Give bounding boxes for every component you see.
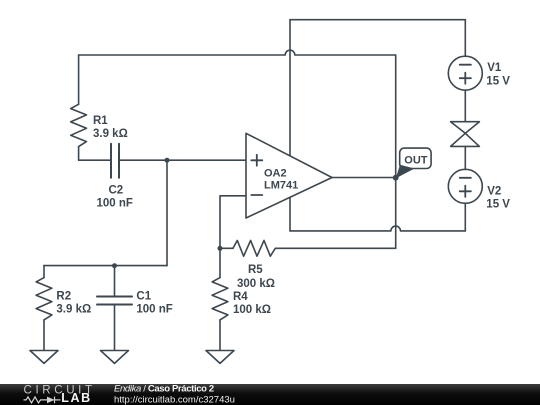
svg-text:Endika / Caso Práctico 2: Endika / Caso Práctico 2 xyxy=(114,383,214,394)
svg-text:3.9 kΩ: 3.9 kΩ xyxy=(93,128,128,140)
svg-text:http://circuitlab.com/c32743u: http://circuitlab.com/c32743u xyxy=(114,395,235,405)
svg-text:3.9 kΩ: 3.9 kΩ xyxy=(56,304,91,316)
svg-text:100 kΩ: 100 kΩ xyxy=(233,304,271,316)
svg-text:OA2: OA2 xyxy=(264,167,287,179)
svg-text:15 V: 15 V xyxy=(486,199,510,211)
svg-text:R4: R4 xyxy=(233,291,248,303)
svg-text:R5: R5 xyxy=(248,264,263,276)
svg-text:R2: R2 xyxy=(56,290,71,302)
svg-text:15 V: 15 V xyxy=(486,75,510,87)
svg-text:LM741: LM741 xyxy=(264,179,298,191)
svg-text:100 nF: 100 nF xyxy=(136,304,172,316)
svg-text:LAB: LAB xyxy=(61,391,92,405)
svg-text:300 kΩ: 300 kΩ xyxy=(237,278,275,290)
svg-text:V2: V2 xyxy=(487,185,501,197)
svg-text:100 nF: 100 nF xyxy=(97,198,133,210)
svg-text:V1: V1 xyxy=(487,62,502,74)
svg-text:C1: C1 xyxy=(136,290,151,302)
svg-text:R1: R1 xyxy=(93,115,108,127)
svg-text:OUT: OUT xyxy=(404,155,428,167)
svg-text:C2: C2 xyxy=(109,184,124,196)
